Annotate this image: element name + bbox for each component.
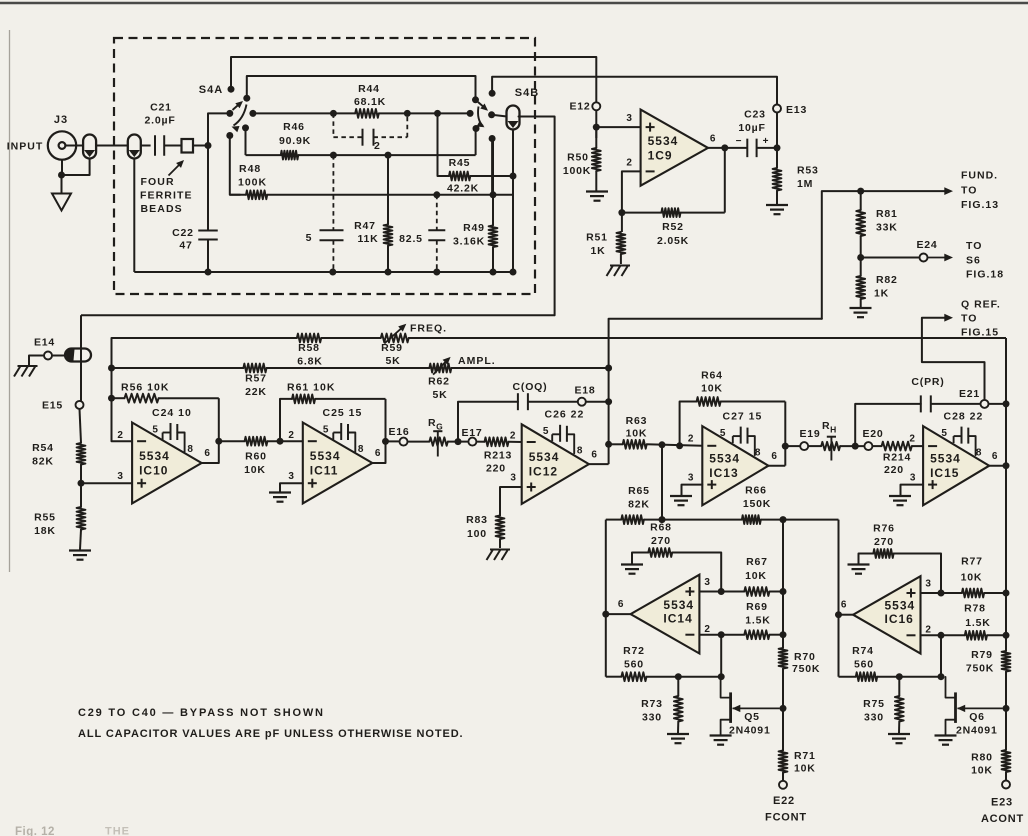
op-amp IC11 (303, 423, 373, 504)
junction R78/bus (1003, 632, 1010, 639)
svg-text:R56 10K: R56 10K (121, 382, 169, 394)
svg-text:FIG.15: FIG.15 (961, 327, 999, 339)
resistor R51 (621, 213, 623, 232)
svg-text:220: 220 (884, 464, 904, 476)
svg-text:C(OQ): C(OQ) (513, 381, 548, 393)
svg-text:R50: R50 (567, 152, 589, 164)
svg-text:5: 5 (543, 426, 549, 437)
svg-text:FOUR: FOUR (141, 176, 175, 188)
svg-text:R72: R72 (623, 645, 645, 657)
svg-text:82K: 82K (628, 499, 650, 511)
svg-text:R81: R81 (876, 208, 898, 220)
junction IC11 pin2 tee (277, 438, 284, 445)
wire E12 to IC9 pin3 (595, 110, 597, 138)
beads pointer arrow (169, 162, 183, 176)
page top border (0, 2, 1028, 5)
svg-text:3: 3 (626, 113, 632, 124)
terminal E15 (76, 401, 84, 409)
wire node up to S4A (208, 113, 226, 145)
junction IC10 out (215, 438, 222, 445)
junction R49/bus (490, 269, 497, 276)
wire IC14 output (606, 613, 631, 615)
ground (R53) (766, 204, 788, 206)
junction (J3 shell) (58, 172, 65, 179)
wire beads to node (193, 145, 208, 147)
wire E18 to column (586, 401, 609, 403)
wire IC10 pin3 (81, 482, 132, 484)
svg-text:ALL CAPACITOR VALUES ARE p: ALL CAPACITOR VALUES ARE pF UNLESS OTHER… (78, 728, 464, 740)
svg-text:5: 5 (323, 425, 329, 436)
terminal E12 (592, 102, 600, 110)
resistor R78 (965, 631, 987, 640)
svg-text:FIG.13: FIG.13 (961, 199, 999, 211)
terminal E14 (44, 352, 52, 360)
svg-text:560: 560 (624, 659, 644, 671)
svg-text:R60: R60 (245, 451, 267, 463)
capacitor C22 (198, 230, 218, 232)
junction E12/R50 (593, 124, 600, 131)
svg-text:C24 10: C24 10 (152, 407, 192, 419)
junction R54/pin3 IC10 (78, 480, 85, 487)
svg-text:E23: E23 (991, 797, 1013, 809)
svg-text:E19: E19 (799, 428, 820, 440)
wire R63 line (609, 443, 623, 445)
svg-text:E12: E12 (569, 101, 590, 113)
ground (R55) (69, 549, 91, 551)
terminal E18 (578, 398, 586, 406)
op-amp IC9 (641, 110, 708, 186)
svg-text:C27 15: C27 15 (723, 411, 763, 423)
wire R76 to pin3 (894, 554, 941, 592)
capacitor 5pF (dashed column) (332, 155, 334, 230)
junction FUND/R81 (857, 188, 864, 195)
wire Q REF from E21 (922, 318, 985, 401)
svg-text:5K: 5K (432, 389, 447, 401)
svg-text:8: 8 (358, 444, 364, 455)
svg-text:E22: E22 (773, 795, 795, 807)
svg-text:1K: 1K (874, 288, 889, 300)
svg-text:10µF: 10µF (738, 122, 765, 134)
resistor R45 (449, 172, 470, 181)
wire S4B pole to capsule (492, 115, 507, 117)
shield dashed box (114, 38, 535, 294)
wire pin2 to R74 line (940, 635, 942, 676)
wire IC13 pin3 ground (682, 485, 703, 495)
svg-text:R77: R77 (961, 556, 983, 568)
wire IC12 pin3/R83 (500, 487, 522, 516)
svg-text:R76: R76 (873, 523, 895, 535)
op-amp IC10 (132, 423, 202, 504)
wire IC9 output (708, 147, 747, 149)
svg-text:R54: R54 (32, 442, 54, 454)
ground (IC13 pin3) (670, 495, 692, 497)
svg-text:2N4091: 2N4091 (956, 725, 998, 737)
svg-text:5: 5 (306, 232, 313, 244)
resistor R81 (860, 191, 862, 210)
svg-text:R63: R63 (626, 415, 648, 427)
junction IC16 out (835, 611, 842, 618)
resistor R63 (623, 440, 647, 449)
svg-text:2.05K: 2.05K (657, 235, 689, 247)
svg-text:R69: R69 (746, 601, 768, 613)
wire RH to E20 (840, 445, 864, 447)
svg-text:E16: E16 (388, 426, 409, 438)
svg-text:560: 560 (854, 659, 874, 671)
svg-text:1.5K: 1.5K (745, 615, 770, 627)
svg-text:C21: C21 (150, 102, 172, 114)
resistor R70 (779, 648, 788, 669)
svg-text:5534: 5534 (529, 450, 560, 464)
arrow Q REF (944, 314, 953, 322)
svg-text:IC15: IC15 (930, 466, 959, 480)
wire right bus upper (1005, 400, 1007, 592)
wire left feedback column (112, 338, 133, 441)
wire IC10 output (202, 441, 219, 463)
pot R62 (429, 364, 451, 373)
ground (E14, chassis) (18, 365, 38, 367)
ground (Q5 source) (710, 734, 732, 736)
wire IC16 pin3 row (921, 592, 962, 594)
svg-text:J3: J3 (54, 114, 68, 126)
wire capsule down column (512, 130, 514, 177)
junction R51/R52 (618, 209, 625, 216)
svg-text:82.5: 82.5 (399, 233, 423, 245)
junction R65/R66 node (659, 516, 666, 523)
pot R59 (381, 334, 409, 343)
svg-text:IC13: IC13 (709, 466, 738, 480)
ground (R50) (586, 190, 608, 192)
svg-text:150K: 150K (743, 498, 771, 510)
ground (R82) (850, 307, 872, 309)
wire IC12 output column (608, 319, 610, 464)
junction R72/Q5 (718, 673, 725, 680)
resistor R61 (292, 395, 315, 404)
svg-text:TO: TO (966, 240, 982, 252)
svg-text:3: 3 (910, 473, 916, 484)
junction C(PR) tap (852, 443, 859, 450)
svg-text:330: 330 (642, 712, 662, 724)
svg-text:R75: R75 (863, 698, 885, 710)
svg-text:+: + (763, 136, 770, 147)
svg-text:E13: E13 (786, 104, 807, 116)
terminal E17 (468, 438, 476, 446)
capacitor C(PR) (920, 395, 922, 412)
svg-text:2: 2 (688, 434, 694, 445)
svg-text:Q6: Q6 (969, 711, 985, 723)
wire E14 to capsule (52, 355, 65, 357)
wire E20 to R214 (872, 445, 881, 447)
svg-text:1.5K: 1.5K (965, 617, 990, 629)
wire R70 to gate node (782, 669, 784, 751)
wire R56 loop (112, 397, 125, 399)
op-amp IC12 (522, 424, 589, 504)
wire R64 loop (680, 402, 697, 446)
junction R46/5pF column (330, 152, 337, 159)
svg-text:R71: R71 (794, 750, 816, 762)
wire R65 line (606, 519, 622, 521)
junction R63/column (605, 441, 612, 448)
svg-text:R49: R49 (463, 222, 485, 234)
svg-text:2: 2 (374, 140, 381, 152)
svg-text:8: 8 (976, 448, 982, 459)
junction IC11 out (382, 438, 389, 445)
svg-text:R79: R79 (971, 649, 993, 661)
arrow E24 to S6 (928, 257, 948, 259)
svg-text:2: 2 (925, 625, 931, 636)
wire FUND bus (609, 318, 822, 320)
terminal E24 (920, 254, 928, 262)
svg-text:R58: R58 (298, 342, 320, 354)
wire main bus S4A-S4B (253, 112, 355, 114)
svg-text:FUND.: FUND. (961, 170, 998, 182)
svg-text:2: 2 (288, 430, 294, 441)
page left border (9, 30, 11, 572)
resistor R71 (779, 751, 788, 773)
svg-text:R57: R57 (245, 373, 267, 385)
wire IC14 pin2 row (699, 634, 744, 636)
junction R74/Q6 (938, 673, 945, 680)
capacitor C26 (pins 5-8) (559, 425, 561, 442)
wire IC12 output (589, 463, 609, 465)
svg-text:R48: R48 (239, 163, 261, 175)
svg-text:BEADS: BEADS (141, 203, 183, 215)
svg-text:750K: 750K (792, 663, 820, 675)
svg-text:10K: 10K (961, 572, 983, 584)
wire capsule to box bottom bus (133, 159, 135, 273)
feedthrough capsule (S4B out) (507, 106, 520, 130)
svg-text:R74: R74 (852, 645, 874, 657)
junction R47/bus (385, 269, 392, 276)
wire C21 to beads (164, 145, 181, 147)
svg-text:IC11: IC11 (310, 464, 339, 478)
svg-text:E21: E21 (959, 388, 980, 400)
arrow FUND (944, 187, 953, 195)
wire E19 to RH (808, 445, 821, 447)
switch S4A wiper (233, 103, 242, 111)
svg-text:TO: TO (961, 185, 977, 197)
wire RG to E17 (448, 441, 469, 443)
svg-text:IC16: IC16 (885, 612, 914, 626)
junction pin3/R76 (938, 590, 945, 597)
svg-text:10K: 10K (701, 383, 723, 395)
capacitor C21 (154, 135, 156, 156)
resistor R57 (243, 364, 266, 373)
junction C23/R53 (774, 144, 781, 151)
junction AMPL/column (605, 365, 612, 372)
junction 5pF/bus (329, 269, 336, 276)
wire R71 to E22 (782, 773, 784, 781)
svg-text:S4B: S4B (515, 87, 539, 99)
svg-text:2N4091: 2N4091 (729, 725, 771, 737)
svg-text:R83: R83 (466, 514, 488, 526)
wire S4B bottom drop (491, 139, 493, 195)
svg-text:330: 330 (864, 712, 884, 724)
wire C22 to bottom bus (207, 240, 209, 273)
resistor R50 (595, 127, 597, 148)
wire S4A bottom-left drop (230, 136, 240, 195)
svg-text:FIG.18: FIG.18 (966, 269, 1004, 281)
svg-text:R214: R214 (883, 452, 911, 464)
ground (R68) (621, 563, 643, 565)
svg-text:E24: E24 (916, 239, 937, 251)
svg-text:R213: R213 (484, 450, 512, 462)
svg-text:10K: 10K (626, 428, 648, 440)
junction bus/dashed cap right (404, 110, 411, 117)
trimmer RG (429, 437, 447, 445)
ground (Q6 source) (935, 734, 957, 736)
wire pin2 to R72 line (720, 635, 722, 677)
resistor R75 (898, 677, 900, 696)
svg-text:R68: R68 (650, 522, 672, 534)
svg-text:3.16K: 3.16K (453, 236, 485, 248)
svg-text:100K: 100K (238, 177, 267, 189)
resistor R80 (1002, 750, 1011, 772)
svg-text:8: 8 (755, 448, 761, 459)
svg-text:10K: 10K (244, 464, 266, 476)
wire IC15 output (989, 465, 1006, 467)
svg-text:C22: C22 (172, 227, 194, 239)
capacitor 82.5pF (dashed column) (436, 195, 438, 230)
capacitor C24 (pins 5-8) (170, 423, 172, 440)
svg-text:R80: R80 (971, 752, 993, 764)
svg-text:THE: THE (105, 826, 130, 836)
svg-text:Q5: Q5 (744, 711, 760, 723)
trimmer RH (821, 442, 840, 450)
svg-text:6: 6 (771, 451, 777, 462)
wire R70 bus upper (782, 520, 784, 648)
wire to E24 (861, 257, 920, 259)
svg-text:2: 2 (626, 158, 632, 169)
svg-text:−: − (736, 136, 743, 147)
resistor R48 (246, 190, 267, 199)
resistor R68 (648, 548, 672, 557)
svg-text:R45: R45 (449, 157, 471, 169)
junction IC14 out (602, 611, 609, 618)
wire C(PR) loop (855, 404, 921, 446)
junction R74/R75 (896, 673, 903, 680)
svg-text:R44: R44 (358, 83, 380, 95)
svg-text:8: 8 (577, 446, 583, 457)
svg-text:R82: R82 (876, 274, 898, 286)
transistor Q5 2N4091 (729, 692, 732, 723)
wire S4A lower-right drop (245, 128, 247, 155)
svg-text:1C9: 1C9 (648, 148, 673, 162)
svg-text:22K: 22K (245, 386, 267, 398)
wire L1 (S4B out to E14 column) (81, 314, 555, 316)
junction R77/bus (1003, 590, 1010, 597)
wire E15 to R54 (80, 409, 82, 443)
wire R61 loop (280, 399, 292, 441)
capacitor C23 (746, 139, 748, 158)
wire IC16 output (839, 614, 854, 616)
svg-text:TO: TO (961, 313, 977, 325)
junction R48/R49 column (490, 191, 497, 198)
wire R76 ground lead (859, 554, 874, 564)
svg-text:R61 10K: R61 10K (287, 382, 335, 394)
junction pin2 tee (IC16) (938, 632, 945, 639)
svg-text:R59: R59 (381, 342, 403, 354)
wire J3 shell ground (62, 159, 90, 176)
ferrite beads box (182, 139, 194, 153)
wire FREQ line (112, 337, 297, 339)
resistor R67 (744, 587, 769, 596)
wire R79 to gate node (1005, 672, 1007, 751)
svg-text:1M: 1M (797, 178, 813, 190)
svg-text:100K: 100K (563, 165, 591, 177)
junction IC15 out (1003, 462, 1010, 469)
svg-text:82K: 82K (32, 456, 54, 468)
svg-text:IC14: IC14 (663, 612, 692, 626)
svg-text:5534: 5534 (885, 599, 916, 613)
svg-text:10K: 10K (971, 765, 993, 777)
terminal E16 (400, 438, 408, 446)
svg-text:IC10: IC10 (139, 464, 168, 478)
terminal E23 (1002, 781, 1010, 789)
wire right bus mid (1005, 593, 1007, 651)
svg-text:E14: E14 (34, 337, 55, 349)
junction E21/column (1003, 400, 1010, 407)
svg-text:C26 22: C26 22 (545, 409, 585, 421)
wire R213 to IC12 (509, 441, 522, 443)
svg-text:100: 100 (467, 528, 487, 540)
wire IC9 pin2/R52 loop (622, 171, 641, 212)
svg-text:E20: E20 (862, 428, 883, 440)
junction IC13 pin2 tee (676, 442, 683, 449)
ground (R51, chassis) (610, 265, 630, 267)
wire R214 to IC15 (912, 445, 923, 447)
wire E21 to column (989, 403, 1007, 405)
wire C23 to E13/R53 (757, 147, 777, 149)
wire IC13 output (768, 465, 785, 467)
svg-text:42.2K: 42.2K (447, 183, 479, 195)
svg-text:11K: 11K (357, 233, 378, 245)
svg-text:C23: C23 (744, 109, 766, 121)
svg-text:S6: S6 (966, 255, 981, 267)
junction R56 tee (108, 395, 115, 402)
svg-text:6: 6 (992, 451, 998, 462)
resistor R54 (77, 443, 86, 465)
capacitor C(OQ) (517, 393, 519, 410)
junction R72/R73 (675, 673, 682, 680)
junction C(OQ) tap (455, 438, 462, 445)
svg-text:R73: R73 (641, 698, 663, 710)
resistor R82 (860, 258, 862, 277)
junction bus/R45 drop (434, 110, 441, 117)
svg-text:R66: R66 (745, 485, 767, 497)
switch S4B contacts (489, 90, 496, 97)
svg-text:750K: 750K (966, 663, 994, 675)
svg-text:AMPL.: AMPL. (458, 355, 496, 367)
resistor R79 (1002, 651, 1011, 672)
wire R60 to IC11 (267, 440, 302, 442)
wire drop to R65 node (661, 445, 663, 520)
svg-text:3: 3 (688, 473, 694, 484)
wire node down to C22 (207, 146, 209, 231)
svg-text:RH: RH (822, 420, 837, 435)
svg-text:2.0µF: 2.0µF (144, 115, 175, 127)
svg-text:R55: R55 (34, 512, 56, 524)
terminal E20 (864, 442, 872, 450)
capacitor C25 (pins 5-8) (340, 423, 342, 440)
wire C(OQ) loop (458, 402, 518, 442)
svg-text:Q REF.: Q REF. (961, 299, 1001, 311)
svg-text:3: 3 (925, 579, 931, 590)
svg-text:47: 47 (179, 240, 192, 252)
junction R69/bus (780, 631, 787, 638)
resistor R66 (742, 515, 761, 524)
ground (R76) (848, 563, 870, 565)
resistor R214 (882, 442, 912, 451)
